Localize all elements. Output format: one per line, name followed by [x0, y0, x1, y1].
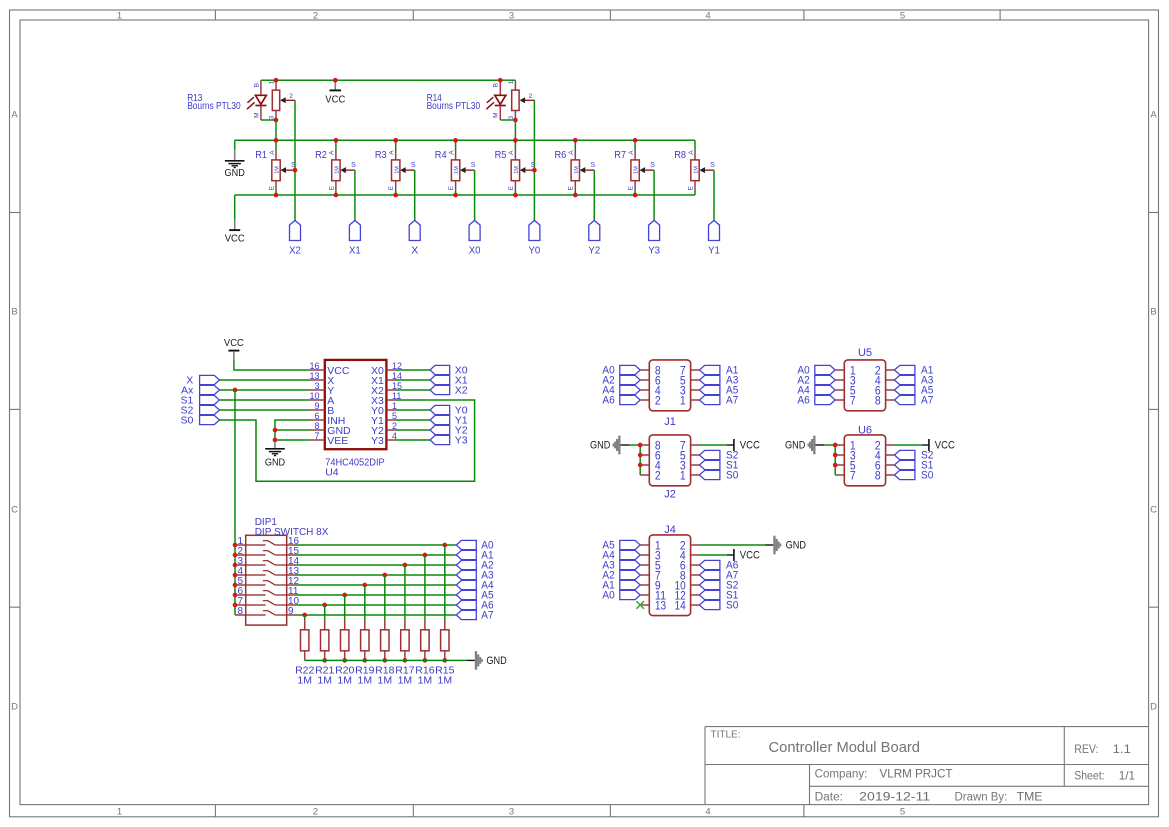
svg-text:C: C [1150, 504, 1157, 515]
junction R2 A pin on A rail [334, 138, 339, 143]
wire J4 pin4 to VCC [699, 554, 726, 556]
J4 pin stub right A7 [691, 574, 700, 576]
wire J4 pin2 to GND (black) [765, 544, 773, 546]
junction A2 to R17 [403, 563, 408, 568]
svg-text:A: A [11, 109, 18, 120]
junction R1 A pin on A rail [274, 138, 279, 143]
svg-text:E: E [568, 185, 575, 190]
svg-text:1M: 1M [317, 674, 332, 686]
J1 pin stub left A2 [640, 379, 649, 381]
wire A rail (GND rail) [235, 139, 695, 141]
svg-text:TITLE:: TITLE: [711, 730, 741, 741]
svg-text:R6: R6 [555, 149, 567, 161]
wire X to U4 pin 13 [219, 379, 310, 381]
connector flag Y0 (U4 out) [430, 404, 468, 416]
svg-text:S0: S0 [726, 470, 738, 482]
wire R13 pin3 down to A rail [275, 120, 277, 140]
wire GND to J2 pin 8 [629, 444, 640, 446]
wire top VCC rail right (R14) [500, 79, 515, 81]
frame column ticks [215, 10, 1000, 817]
J4 pin stub right pin2 [691, 544, 700, 546]
svg-text:GND: GND [486, 655, 506, 667]
svg-text:S: S [710, 162, 715, 169]
wire DIP pin 15 to A1 [295, 554, 456, 556]
power VCC (above U4) [224, 337, 244, 361]
svg-text:B: B [493, 83, 500, 87]
J2 pin stub right S2 [691, 454, 700, 456]
svg-text:13: 13 [309, 371, 319, 381]
svg-text:GND: GND [265, 456, 286, 468]
svg-text:4: 4 [705, 806, 710, 817]
no-connect cross J4 pin 13 [636, 601, 644, 609]
J2 name label [664, 489, 676, 501]
connector flag S2 (J4 right) [699, 580, 738, 592]
svg-text:A: A [448, 150, 455, 155]
wire GND to J2 pin 8 (black) [621, 444, 630, 446]
U5 name label [858, 347, 872, 359]
title block REV value [1113, 742, 1132, 756]
J4 pin stub right A6 [691, 564, 700, 566]
junction R18 on GND rail [382, 658, 387, 663]
title block border lines [705, 727, 1149, 805]
connector flag A2 [456, 560, 493, 572]
title block REV label [1074, 744, 1098, 756]
junction DIP pin 6 on Ax drop [233, 593, 238, 598]
connector flag A1 (J1 right) [699, 365, 738, 377]
svg-text:1M: 1M [358, 674, 373, 686]
wire J2 left pins vertical [639, 445, 641, 475]
svg-text:VLRM PRJCT: VLRM PRJCT [880, 767, 954, 781]
trimmer potentiometer R7 [614, 140, 655, 195]
svg-text:1: 1 [117, 11, 122, 22]
junction R4 A pin on A rail [453, 138, 458, 143]
U5 pin stub left A0 [835, 369, 844, 371]
junction R5 E pin on E rail [513, 193, 518, 198]
svg-text:1M: 1M [574, 166, 580, 174]
U6 pin numbers [850, 441, 881, 483]
junction R14 pin3 [513, 118, 518, 123]
wire S0 to X3 loop [219, 400, 474, 481]
junction R13 pin3 [274, 118, 279, 123]
J4 pin stub right S0 [691, 604, 700, 606]
trimmer potentiometer R6 [555, 140, 596, 195]
connector flag Y1 (U4 out) [430, 414, 468, 426]
junction U6 left at y465 [833, 463, 838, 468]
connector J1 box [649, 360, 690, 411]
svg-text:3: 3 [509, 806, 514, 817]
svg-text:A: A [568, 150, 575, 155]
U4 name label [325, 466, 339, 478]
frame column labels top [117, 11, 905, 22]
J1 pin stub left A4 [640, 389, 649, 391]
power GND (below U4) [265, 442, 286, 469]
wire U6 left pins vertical [834, 445, 836, 475]
svg-text:A: A [508, 150, 515, 155]
frame row labels [11, 109, 1157, 712]
connector flag S0 (J2) [699, 470, 738, 482]
svg-text:1M: 1M [418, 674, 433, 686]
svg-text:3: 3 [509, 11, 514, 22]
wire U4 X2 to flag [395, 389, 430, 391]
connector flag A5 (U5 right) [894, 385, 933, 397]
resistor R22 1M [295, 615, 314, 686]
J2 pin stub right pin7 [691, 444, 700, 446]
J2 pin stub left y465 [640, 464, 649, 466]
DIP1 name label [255, 517, 278, 528]
junction DIP pin 2 on Ax drop [233, 553, 238, 558]
junction R21 on GND rail [322, 658, 327, 663]
connector flag A6 [456, 600, 493, 612]
svg-text:A7: A7 [481, 610, 493, 622]
connector flag A0 [456, 540, 493, 552]
svg-text:9: 9 [288, 606, 294, 617]
J2 pin stub right S1 [691, 464, 700, 466]
junction R1 E pin on E rail [274, 193, 279, 198]
junction DIP pin 1 on Ax drop [233, 543, 238, 548]
junction R6 A pin on A rail [573, 138, 578, 143]
svg-text:S: S [351, 162, 356, 169]
svg-text:13: 13 [655, 601, 666, 613]
U6 pin stub right S0 [886, 474, 895, 476]
connector flag X2 [289, 220, 301, 256]
wire VCC to U4 pin 16 [234, 361, 310, 371]
connector flag A5 [456, 590, 493, 602]
J4 pin stub left A1 [640, 584, 649, 586]
junction DIP pin 3 on Ax drop [233, 563, 238, 568]
junction wiper R1 at S row [293, 168, 298, 173]
wire DIP pin 11 to A5 [295, 594, 456, 596]
junction R14 LED pin on VCC rail [498, 78, 503, 83]
junction A5 to R20 [342, 593, 347, 598]
U5 pin stub right A3 [886, 379, 895, 381]
svg-text:E: E [268, 185, 275, 190]
U6 name label [858, 425, 872, 437]
svg-text:S0: S0 [180, 414, 193, 426]
title block DrawnBy value [1017, 789, 1043, 803]
junction U4 GND pin [273, 428, 278, 433]
connector flag S2 (U6) [894, 450, 933, 462]
J4 pin stub left A0 [640, 594, 649, 596]
svg-text:A0: A0 [602, 590, 614, 602]
connector flag S1 (J4 right) [699, 590, 738, 602]
resistor R15 1M [435, 545, 454, 686]
connector flag A4 (U5 left) [797, 385, 835, 397]
resistor R18 1M [375, 575, 394, 686]
U5 pin numbers [850, 366, 881, 408]
svg-text:S: S [411, 162, 416, 169]
junction A6 to R21 [322, 603, 327, 608]
connector flag X2 (U4 out) [430, 384, 468, 396]
wire R13 LED cathode to pin3 [261, 119, 276, 121]
resistor R20 1M [335, 595, 354, 686]
connector flag A2 (U5 left) [797, 375, 835, 387]
wire pot pin2 / X2 vertical [294, 100, 296, 220]
connector flag A7 (J1 right) [699, 395, 738, 407]
J1 pin stub right A7 [691, 399, 700, 401]
J4 pin stub left A2 [640, 574, 649, 576]
J1 pin stub left A0 [640, 369, 649, 371]
connector flag A3 (J1 right) [699, 375, 738, 387]
trimmer potentiometer R4 [435, 140, 476, 195]
svg-text:R2: R2 [315, 149, 327, 161]
svg-text:8: 8 [875, 471, 881, 483]
wire Ax drop to DIP switch [234, 390, 236, 615]
U5 pin stub left A2 [835, 379, 844, 381]
svg-text:R3: R3 [375, 149, 387, 161]
svg-text:8: 8 [314, 421, 319, 431]
svg-text:9: 9 [314, 401, 319, 411]
junction U6 left at y445 [833, 443, 838, 448]
J4 pin stub right S1 [691, 594, 700, 596]
svg-text:1M: 1M [394, 166, 400, 174]
svg-text:J1: J1 [664, 416, 676, 428]
svg-text:E: E [508, 185, 515, 190]
wire U4 X0 to flag [395, 369, 430, 371]
connector flag X [409, 220, 420, 256]
svg-text:GND: GND [786, 540, 806, 552]
junction R20 on GND rail [342, 658, 347, 663]
connector U6 box [844, 435, 885, 486]
U6 pin stub right pin2 [886, 444, 895, 446]
svg-text:Company:: Company: [815, 769, 868, 781]
junction wiper R5 at S row [532, 168, 537, 173]
connector flag A3 [456, 570, 493, 582]
connector flag S1 (U6) [894, 460, 933, 472]
U5 pin stub left A6 [835, 399, 844, 401]
svg-text:Controller Modul Board: Controller Modul Board [769, 739, 921, 756]
svg-text:Bourns PTL30: Bourns PTL30 [187, 100, 241, 112]
trimmer potentiometer R5 [495, 140, 536, 195]
junction R13 pin1 on VCC rail [274, 78, 279, 83]
junction DIP pin 7 on Ax drop [233, 603, 238, 608]
resistor R17 1M [395, 565, 414, 686]
svg-text:X1: X1 [349, 245, 361, 257]
wire E rail (VCC rail) [235, 194, 695, 196]
junction A0 to R15 [442, 543, 447, 548]
connector flag A0 (J4 left) [602, 590, 640, 602]
svg-text:Drawn By:: Drawn By: [955, 791, 1008, 803]
connector flag X1 [349, 220, 361, 256]
svg-text:2019-12-11: 2019-12-11 [859, 789, 930, 803]
svg-text:1M: 1M [275, 166, 281, 174]
junction VCC tap on top rail [333, 78, 338, 83]
svg-text:D: D [1150, 701, 1157, 712]
connector flag S0 (U6) [894, 470, 933, 482]
svg-text:GND: GND [590, 440, 610, 452]
junction R19 on GND rail [362, 658, 367, 663]
J1 name label [664, 416, 676, 428]
svg-text:VCC: VCC [325, 93, 345, 105]
svg-text:GND: GND [225, 167, 246, 179]
wire wiper R4 down to X0 [474, 170, 476, 220]
svg-text:14: 14 [675, 601, 687, 613]
svg-text:4: 4 [705, 11, 710, 22]
J2 pin stub left y475 [640, 474, 649, 476]
wire U4 Y2 to flag [395, 429, 430, 431]
wire J4 pin4 to VCC (black) [727, 554, 734, 556]
junction A4 to R19 [362, 583, 367, 588]
svg-text:X: X [411, 245, 418, 257]
svg-text:B: B [253, 83, 260, 87]
wire DIP pin 9 to A7 [295, 614, 456, 616]
svg-text:M: M [253, 112, 260, 117]
connector flag A1 (J4 left) [602, 580, 640, 592]
svg-text:X2: X2 [455, 384, 468, 396]
potentiometer R14 (Bourns PTL30) [427, 80, 535, 120]
junction J2 left at y445 [638, 443, 643, 448]
svg-text:VCC: VCC [740, 440, 760, 452]
wire S1 to U4 pin 10 [219, 399, 310, 401]
wire U4 X1 to flag [395, 379, 430, 381]
junction R7 E pin on E rail [633, 193, 638, 198]
U6 pin stub left y445 [835, 444, 844, 446]
U5 pin stub right A7 [886, 399, 895, 401]
svg-text:6: 6 [314, 411, 319, 421]
junction R5 A pin on A rail [513, 138, 518, 143]
connector flag S0 (U4 input) [180, 414, 219, 426]
svg-text:VCC: VCC [224, 337, 244, 349]
U6 pin stub left y455 [835, 454, 844, 456]
junction U4 VEE pin [273, 438, 278, 443]
connector flag A2 (J1 left) [602, 375, 640, 387]
wire U4 Y1 to flag [395, 419, 430, 421]
connector flag A0 (J1 left) [602, 365, 640, 377]
junction A1 to R16 [423, 553, 428, 558]
wire DIP pin 10 to A6 [295, 604, 456, 606]
svg-text:R7: R7 [614, 149, 626, 161]
svg-text:1M: 1M [438, 674, 453, 686]
connector flag S2 (J2) [699, 450, 738, 462]
power VCC (U6) [929, 439, 955, 452]
power VCC (bottom left) [225, 220, 245, 245]
connector flag S1 (U4 input) [180, 394, 219, 406]
svg-text:E: E [448, 185, 455, 190]
svg-text:2: 2 [289, 93, 293, 100]
svg-text:1M: 1M [337, 674, 352, 686]
wire top VCC rail left (R13) [261, 79, 500, 81]
J4 pin stub left A4 [640, 554, 649, 556]
connector flag A1 [456, 550, 493, 562]
wire U4 Y3 to flag [395, 439, 430, 441]
power GND flag (pulldown rail) [467, 651, 507, 670]
svg-text:TME: TME [1017, 789, 1043, 803]
junction R7 A pin on A rail [633, 138, 638, 143]
frame row ticks [10, 213, 1159, 608]
svg-text:R8: R8 [674, 149, 686, 161]
svg-text:1M: 1M [514, 166, 520, 174]
frame column labels bottom [117, 806, 905, 817]
connector flag A4 (J4 left) [602, 550, 640, 562]
svg-text:8: 8 [875, 396, 881, 408]
connector flag A2 (J4 left) [602, 570, 640, 582]
svg-text:Y0: Y0 [529, 245, 541, 257]
J2 pin numbers [655, 441, 686, 483]
svg-text:VCC: VCC [935, 440, 955, 452]
J4 pin numbers [655, 541, 686, 613]
power GND flag (J2) [590, 436, 621, 455]
svg-text:Date:: Date: [815, 791, 843, 803]
svg-text:Y1: Y1 [708, 245, 720, 257]
svg-text:Y3: Y3 [371, 435, 384, 447]
svg-text:A6: A6 [602, 395, 614, 407]
svg-text:U5: U5 [858, 347, 872, 359]
connector flag A7 (U5 right) [894, 395, 933, 407]
junction DIP pin 4 on Ax drop [233, 573, 238, 578]
svg-text:1M: 1M [634, 166, 640, 174]
title block title text [769, 739, 921, 756]
connector flag X (U4 input) [186, 374, 219, 386]
junction J2 left at y465 [638, 463, 643, 468]
connector flag A6 (U5 left) [797, 395, 835, 407]
connector flag X0 (U4 out) [430, 364, 468, 376]
svg-text:S: S [650, 162, 655, 169]
connector flag S2 (U4 input) [180, 404, 219, 416]
connector flag A3 (U5 right) [894, 375, 933, 387]
wire INH to GND drop [275, 420, 310, 442]
wire wiper R7 down to Y3 [653, 170, 655, 220]
resistor R16 1M [415, 555, 434, 686]
trimmer potentiometer R1 [255, 140, 296, 195]
J4 pin stub right S2 [691, 584, 700, 586]
connector U5 box [844, 360, 885, 411]
J1 pin stub left A6 [640, 399, 649, 401]
power VCC (top rail) [325, 80, 345, 105]
connector flag A4 [456, 580, 493, 592]
U5 pin stub right A5 [886, 389, 895, 391]
U6 pin stub left y475 [835, 474, 844, 476]
wire wiper R8 down to Y1 [713, 170, 715, 220]
connector flag X0 [469, 220, 481, 256]
power GND (top left earth symbol) [225, 150, 246, 179]
svg-text:7: 7 [850, 471, 856, 483]
svg-text:Y3: Y3 [648, 245, 660, 257]
svg-text:B: B [11, 306, 17, 317]
junction DIP pin 5 on Ax drop [233, 583, 238, 588]
power GND flag (J4) [773, 536, 806, 555]
J2 pin stub right S0 [691, 474, 700, 476]
title block Date value [859, 789, 930, 803]
wire E rail to VCC drop [234, 195, 236, 220]
connector flag Y3 (U4 out) [430, 434, 468, 446]
junction Ax line to DIP switch drop [233, 388, 238, 393]
svg-text:A: A [269, 150, 276, 155]
svg-text:1/1: 1/1 [1119, 769, 1136, 783]
svg-text:1.1: 1.1 [1113, 742, 1132, 756]
svg-text:S: S [471, 162, 476, 169]
title block Sheet value [1119, 769, 1136, 783]
power GND flag (U6) [785, 436, 816, 455]
connector flag A5 (J4 left) [602, 540, 640, 552]
wire Ax to U4 pin 3 [219, 389, 310, 391]
J1 pin stub right A5 [691, 389, 700, 391]
title block Date label [815, 791, 843, 803]
connector flag Ax (U4 input) [181, 384, 219, 396]
U4 right pins with numbers [371, 361, 402, 447]
svg-text:J4: J4 [664, 524, 676, 536]
connector flag A7 [456, 610, 493, 622]
svg-text:1M: 1M [297, 674, 312, 686]
wire J4 pin2 to GND [699, 544, 765, 546]
DIP switch DIP1 box [246, 535, 287, 625]
connector flag A4 (J1 left) [602, 385, 640, 397]
svg-text:16: 16 [309, 361, 319, 371]
junction R3 A pin on A rail [393, 138, 398, 143]
wire J2 pin7 to VCC (black) [727, 444, 734, 446]
connector flag A1 (U5 right) [894, 365, 933, 377]
svg-text:8: 8 [237, 606, 243, 617]
svg-text:Sheet:: Sheet: [1074, 771, 1104, 783]
J1 pin stub right A3 [691, 379, 700, 381]
